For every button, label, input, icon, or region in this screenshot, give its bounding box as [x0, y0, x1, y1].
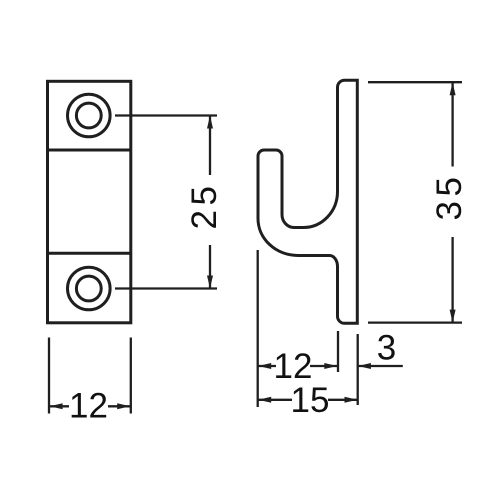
front view divider line lower	[48, 252, 131, 255]
svg-text:15: 15	[291, 381, 330, 420]
svg-text:35: 35	[430, 173, 469, 221]
front view divider line upper	[48, 149, 131, 152]
side view extension line plate front face	[337, 331, 339, 372]
dimension 35 line lower segment	[451, 237, 453, 323]
side view extension line hook front face	[257, 250, 259, 407]
side view extension line plate back face	[357, 334, 359, 405]
dimension 12 front left tail	[50, 405, 69, 407]
svg-text:3: 3	[377, 329, 396, 368]
screw hole top outer circle	[68, 94, 111, 137]
svg-text:12: 12	[69, 387, 108, 426]
dimension 25 line upper segment	[209, 116, 211, 176]
dimension 25 line lower segment	[209, 245, 211, 289]
arrowhead dim3 left	[358, 363, 371, 369]
dimension 35 extension line top	[368, 81, 462, 83]
arrowhead dim12 front right	[117, 403, 130, 409]
dimension 12 side right tail	[310, 365, 337, 367]
arrowhead dim35 up	[450, 82, 456, 95]
dimension 15 right tail	[328, 399, 358, 401]
dimension 35 extension line bottom	[368, 321, 462, 323]
arrowhead dim12 side right	[324, 363, 337, 369]
front view extension line right	[130, 338, 132, 414]
arrowhead dim35 down	[450, 310, 456, 323]
dimension 35 line upper segment	[451, 82, 453, 166]
dimension 12 side left tail	[258, 365, 276, 367]
svg-text:25: 25	[185, 182, 224, 230]
leader line from top screw hole	[115, 114, 217, 116]
dimension 3 tail	[358, 365, 403, 367]
side view hook outline	[258, 80, 357, 323]
front view extension line left	[48, 338, 50, 414]
arrowhead dim25 down	[207, 276, 213, 289]
arrowhead dim15 right	[345, 397, 358, 403]
dimension 12 front right tail	[108, 405, 130, 407]
arrowhead dim25 up	[207, 116, 213, 129]
leader line from bottom screw hole	[115, 287, 217, 289]
screw hole top inner circle	[76, 103, 101, 128]
dimension 15 left tail	[258, 399, 292, 401]
arrowhead dim12 front left	[50, 403, 63, 409]
front view plate outline	[48, 81, 131, 322]
screw hole bottom inner circle	[76, 276, 101, 301]
arrowhead dim12 side left	[258, 363, 271, 369]
arrowhead dim15 left	[258, 397, 271, 403]
screw hole bottom outer circle	[68, 267, 111, 310]
